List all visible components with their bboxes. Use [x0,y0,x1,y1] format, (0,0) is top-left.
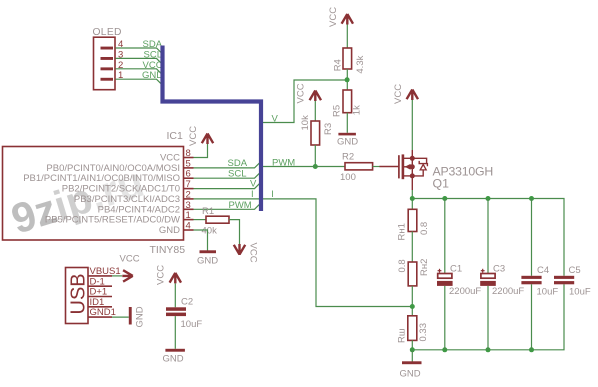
ground text rail [400,369,421,380]
svg-text:SCL: SCL [144,49,162,60]
ground symbol R5 [338,133,356,136]
supply VCC text (R4) [328,7,339,27]
wire C3 top [487,199,489,274]
junction C3 top [486,196,491,201]
svg-text:VCC: VCC [248,243,259,263]
IC1 name [167,130,184,142]
svg-text:10uF: 10uF [181,319,203,330]
USB pin ID1 [88,297,112,308]
C5 name [569,265,581,276]
net label SCL (OLED) [144,49,162,60]
resistor Rh1 [408,209,417,231]
C1 value 2200uF [449,286,481,297]
svg-text:C5: C5 [569,265,581,276]
supply VCC text (R3) [296,83,307,103]
svg-text:V: V [272,114,279,125]
junction R4/R5/V [345,77,350,82]
svg-text:VCC: VCC [156,265,167,285]
supply VCC text IC1 [188,126,199,146]
svg-text:GND: GND [142,70,163,81]
connector OLED pad 2 [101,67,114,70]
net label V (pin7) [250,179,257,190]
capacitor C4 [521,276,541,285]
junction GND rail [410,347,415,352]
C3 name [493,264,505,275]
wire SDA OLED to bus [116,48,162,53]
wire VCC to R4 [346,25,348,49]
svg-text:R4: R4 [333,59,344,71]
svg-text:R5: R5 [332,105,343,117]
wire VCC to R3 [314,101,316,121]
net label SDA [228,158,248,169]
junction C1 bottom [442,347,447,352]
svg-text:GND1: GND1 [90,307,116,318]
svg-text:PB1/PCINT1/AIN1/OC0B/INT0/MISO: PB1/PCINT1/AIN1/OC0B/INT0/MISO [23,173,180,184]
svg-text:C4: C4 [537,265,549,276]
supply VCC arrow (C2) [170,273,181,284]
svg-text:R3: R3 [323,123,334,135]
connector OLED body [94,37,116,89]
R1 name [202,206,214,217]
net PWM wire bus to R2 [260,166,345,168]
connector USB body [66,268,89,324]
wire PWM pin3 to bus [194,204,260,209]
wire V pin7 to bus [194,184,260,189]
svg-text:10k: 10k [300,115,311,131]
svg-text:100: 100 [340,172,356,183]
svg-text:VCC: VCC [296,83,307,103]
USB pin VBUS1 [88,266,121,277]
resistor R1 [206,216,229,223]
resistor R3 [311,121,320,145]
svg-text:R2: R2 [342,151,354,162]
connector OLED pad 3 [101,57,114,60]
Rsh value 0.33 [418,323,429,342]
capacitor C3 [480,274,496,286]
svg-text:10uF: 10uF [537,287,559,298]
R4 name [333,59,344,71]
svg-text:I: I [251,189,254,200]
svg-text:0.33: 0.33 [418,323,429,342]
svg-text:2200uF: 2200uF [449,286,481,297]
wire R2 to Q1 gate [373,166,380,168]
capacitor C2 [166,307,186,316]
wire pin1 to R1 [194,219,207,221]
junction Q1/Rh1 [410,196,415,201]
wire R5 to GND [346,113,348,133]
svg-text:C2: C2 [181,297,193,308]
svg-text:PWM: PWM [229,200,252,211]
resistor R2 [345,163,373,170]
supply VCC text (Q1) [393,84,404,104]
wire R4 to R5 [346,69,348,90]
svg-text:GND: GND [135,306,146,327]
Rh1 value 0.8 [419,222,430,235]
ground text USB [135,306,146,327]
Rsh name [397,329,408,343]
svg-text:SCL: SCL [228,168,246,179]
svg-text:2200uF: 2200uF [492,286,524,297]
Rh2 name [419,259,430,276]
svg-text:4.3k: 4.3k [355,55,366,73]
ground symbol rail [402,361,422,364]
svg-text:1k: 1k [351,105,362,115]
net label GND (OLED) [142,70,163,81]
wire GND1 to ground [112,316,129,318]
wire pin8 VCC [194,144,208,158]
ground text C2 [163,354,184,365]
wire C1 bottom [444,286,446,350]
svg-text:PB5/PCINT5/RESET/ADC0/DW: PB5/PCINT5/RESET/ADC0/DW [45,215,180,226]
bottom rail wire [412,284,564,350]
wire rail to Rh1 [411,199,413,210]
C4 value 10uF [537,287,559,298]
C2 name [181,297,193,308]
svg-text:0.8: 0.8 [419,222,430,235]
wire C4 top [531,199,533,276]
wire R3 to PWM [314,145,316,167]
svg-text:GND: GND [337,137,358,148]
svg-text:VCC: VCC [188,126,199,146]
svg-text:SDA: SDA [143,39,163,50]
svg-text:R1: R1 [202,206,214,217]
ground text R5 [337,137,358,148]
R4 value 4.3k [355,55,366,73]
supply VCC text (R1) [248,243,259,263]
svg-text:I: I [271,189,274,200]
USB pin D-1 [88,276,112,287]
resistor Rsh [408,316,417,341]
capacitor C5 [554,276,574,285]
R5 value 1k [351,105,362,115]
svg-text:USB: USB [68,273,90,314]
Rh2 value 0.8 [397,259,408,272]
wire SCL pin6 to bus [194,173,260,178]
wire Rsh to bottom rail [411,340,413,349]
resistor Rh2 [408,262,417,286]
svg-text:VCC: VCC [160,153,180,164]
Rh1 name [397,223,408,240]
wire pin4 to GND [194,230,208,251]
svg-text:VCC: VCC [393,84,404,104]
junction C4 bottom [529,347,534,352]
net label SDA (OLED) [143,39,163,50]
net label VCC (OLED) [143,60,163,71]
wire Q1 drain to rail [411,190,413,199]
wire GND OLED to bus [116,79,162,84]
transistor Q1 MOSFET [380,150,428,190]
connector OLED name [93,27,122,38]
resistor R5 [343,90,352,113]
svg-text:VCC: VCC [328,7,339,27]
supply VCC arrow (R4) [342,14,353,25]
connector OLED pad 4 [101,47,114,50]
wire I pin2 to sense junction [194,199,412,307]
supply VCC arrow (R3) [310,91,321,102]
svg-text:PWM: PWM [272,158,295,169]
wire C2 to GND [174,316,176,349]
connector USB name [68,273,90,314]
svg-text:GND: GND [159,225,180,236]
IC1 box [3,147,184,241]
svg-text:0.8: 0.8 [397,259,408,272]
svg-text:TINY85: TINY85 [150,244,186,256]
supply VCC down arrow (R1) [234,244,245,255]
connector OLED pad 1 [101,78,114,81]
junction R3/PWM [313,164,318,169]
net label PWM (pin3) [229,200,252,211]
wire SDA pin5 to bus [194,163,260,168]
C4 name [537,265,549,276]
capacitor C1 [437,274,453,286]
OLED pin numbers [118,39,123,81]
supply VCC right arrow (USB) [122,270,133,281]
svg-text:Rн2: Rн2 [419,259,430,276]
svg-text:Q1: Q1 [433,177,450,191]
IC1 pin numbers [186,148,191,232]
svg-text:OLED: OLED [93,27,122,38]
R2 value 100 [340,172,356,183]
svg-text:Rн1: Rн1 [397,223,408,240]
wire VCC to C2 [174,283,176,307]
ground symbol IC1 pin4 [200,250,217,253]
watermark 9zip.ru [6,158,149,243]
IC1 value TINY85 [150,244,186,256]
svg-text:VCC: VCC [120,254,140,265]
wire SCL OLED to bus [116,58,162,63]
R3 value 10k [300,115,311,131]
svg-text:Rш: Rш [397,329,408,343]
wire VCC to Q1 source [411,100,413,150]
svg-text:C3: C3 [493,264,505,275]
R5 name [332,105,343,117]
svg-text:C1: C1 [450,264,462,275]
capacitor C3 plus sign [481,269,485,273]
R2 name [342,151,354,162]
net label I (pin2) [251,189,254,200]
IC1 pin stubs [184,158,194,231]
C3 value 2200uF [492,286,524,297]
supply VCC text (USB) [120,254,140,265]
svg-text:40k: 40k [202,226,218,237]
wire C1 top [444,199,446,274]
resistor R4 [343,48,352,69]
top rail wire [412,199,564,276]
Q1 value AP3310GH [433,165,494,179]
svg-text:10uF: 10uF [569,287,591,298]
net label V [272,114,279,125]
svg-text:PB3/PCINT3/CLKI/ADC3: PB3/PCINT3/CLKI/ADC3 [74,194,180,205]
net label PWM [272,158,295,169]
supply VCC arrow IC1 [202,134,213,145]
junction C1 top [442,196,447,201]
supply VCC text (C2) [156,265,167,285]
wire Rh2 to junction [411,286,413,316]
R3 name [323,123,334,135]
R1 value 40k [202,226,218,237]
svg-text:IC1: IC1 [167,130,184,142]
ground symbol USB [129,307,132,325]
net label SCL [228,168,246,179]
junction C3 bottom [486,347,491,352]
net label I (right of bus) [271,189,274,200]
wire R1 to VCC down [229,220,240,244]
junction sense I [410,304,415,309]
Q1 name [433,177,450,191]
USB pin D+1 [88,287,112,298]
svg-text:GND: GND [197,256,218,267]
wire Rh1 to Rh2 [411,232,413,263]
C2 value 10uF [181,319,203,330]
junction C4 top [529,196,534,201]
C5 value 10uF [569,287,591,298]
svg-text:GND: GND [400,369,421,380]
net V wire bus to divider [260,80,347,123]
USB pin GND1 [88,307,116,318]
capacitor C1 plus sign [438,269,442,273]
ground text IC1 pin4 [197,256,218,267]
wire VBUS1 to VCC [112,275,122,277]
bus to OLED [163,46,262,212]
wire VCC OLED to bus [116,69,162,74]
C1 name [450,264,462,275]
svg-text:GND: GND [163,354,184,365]
wire C3 bottom [487,286,489,350]
supply VCC arrow (Q1) [407,90,418,101]
ground symbol C2 [165,349,185,352]
wire rail to GND [411,350,413,362]
IC1 pin names [23,153,180,237]
wire C4 bottom [531,284,533,350]
svg-text:VCC: VCC [143,60,163,71]
